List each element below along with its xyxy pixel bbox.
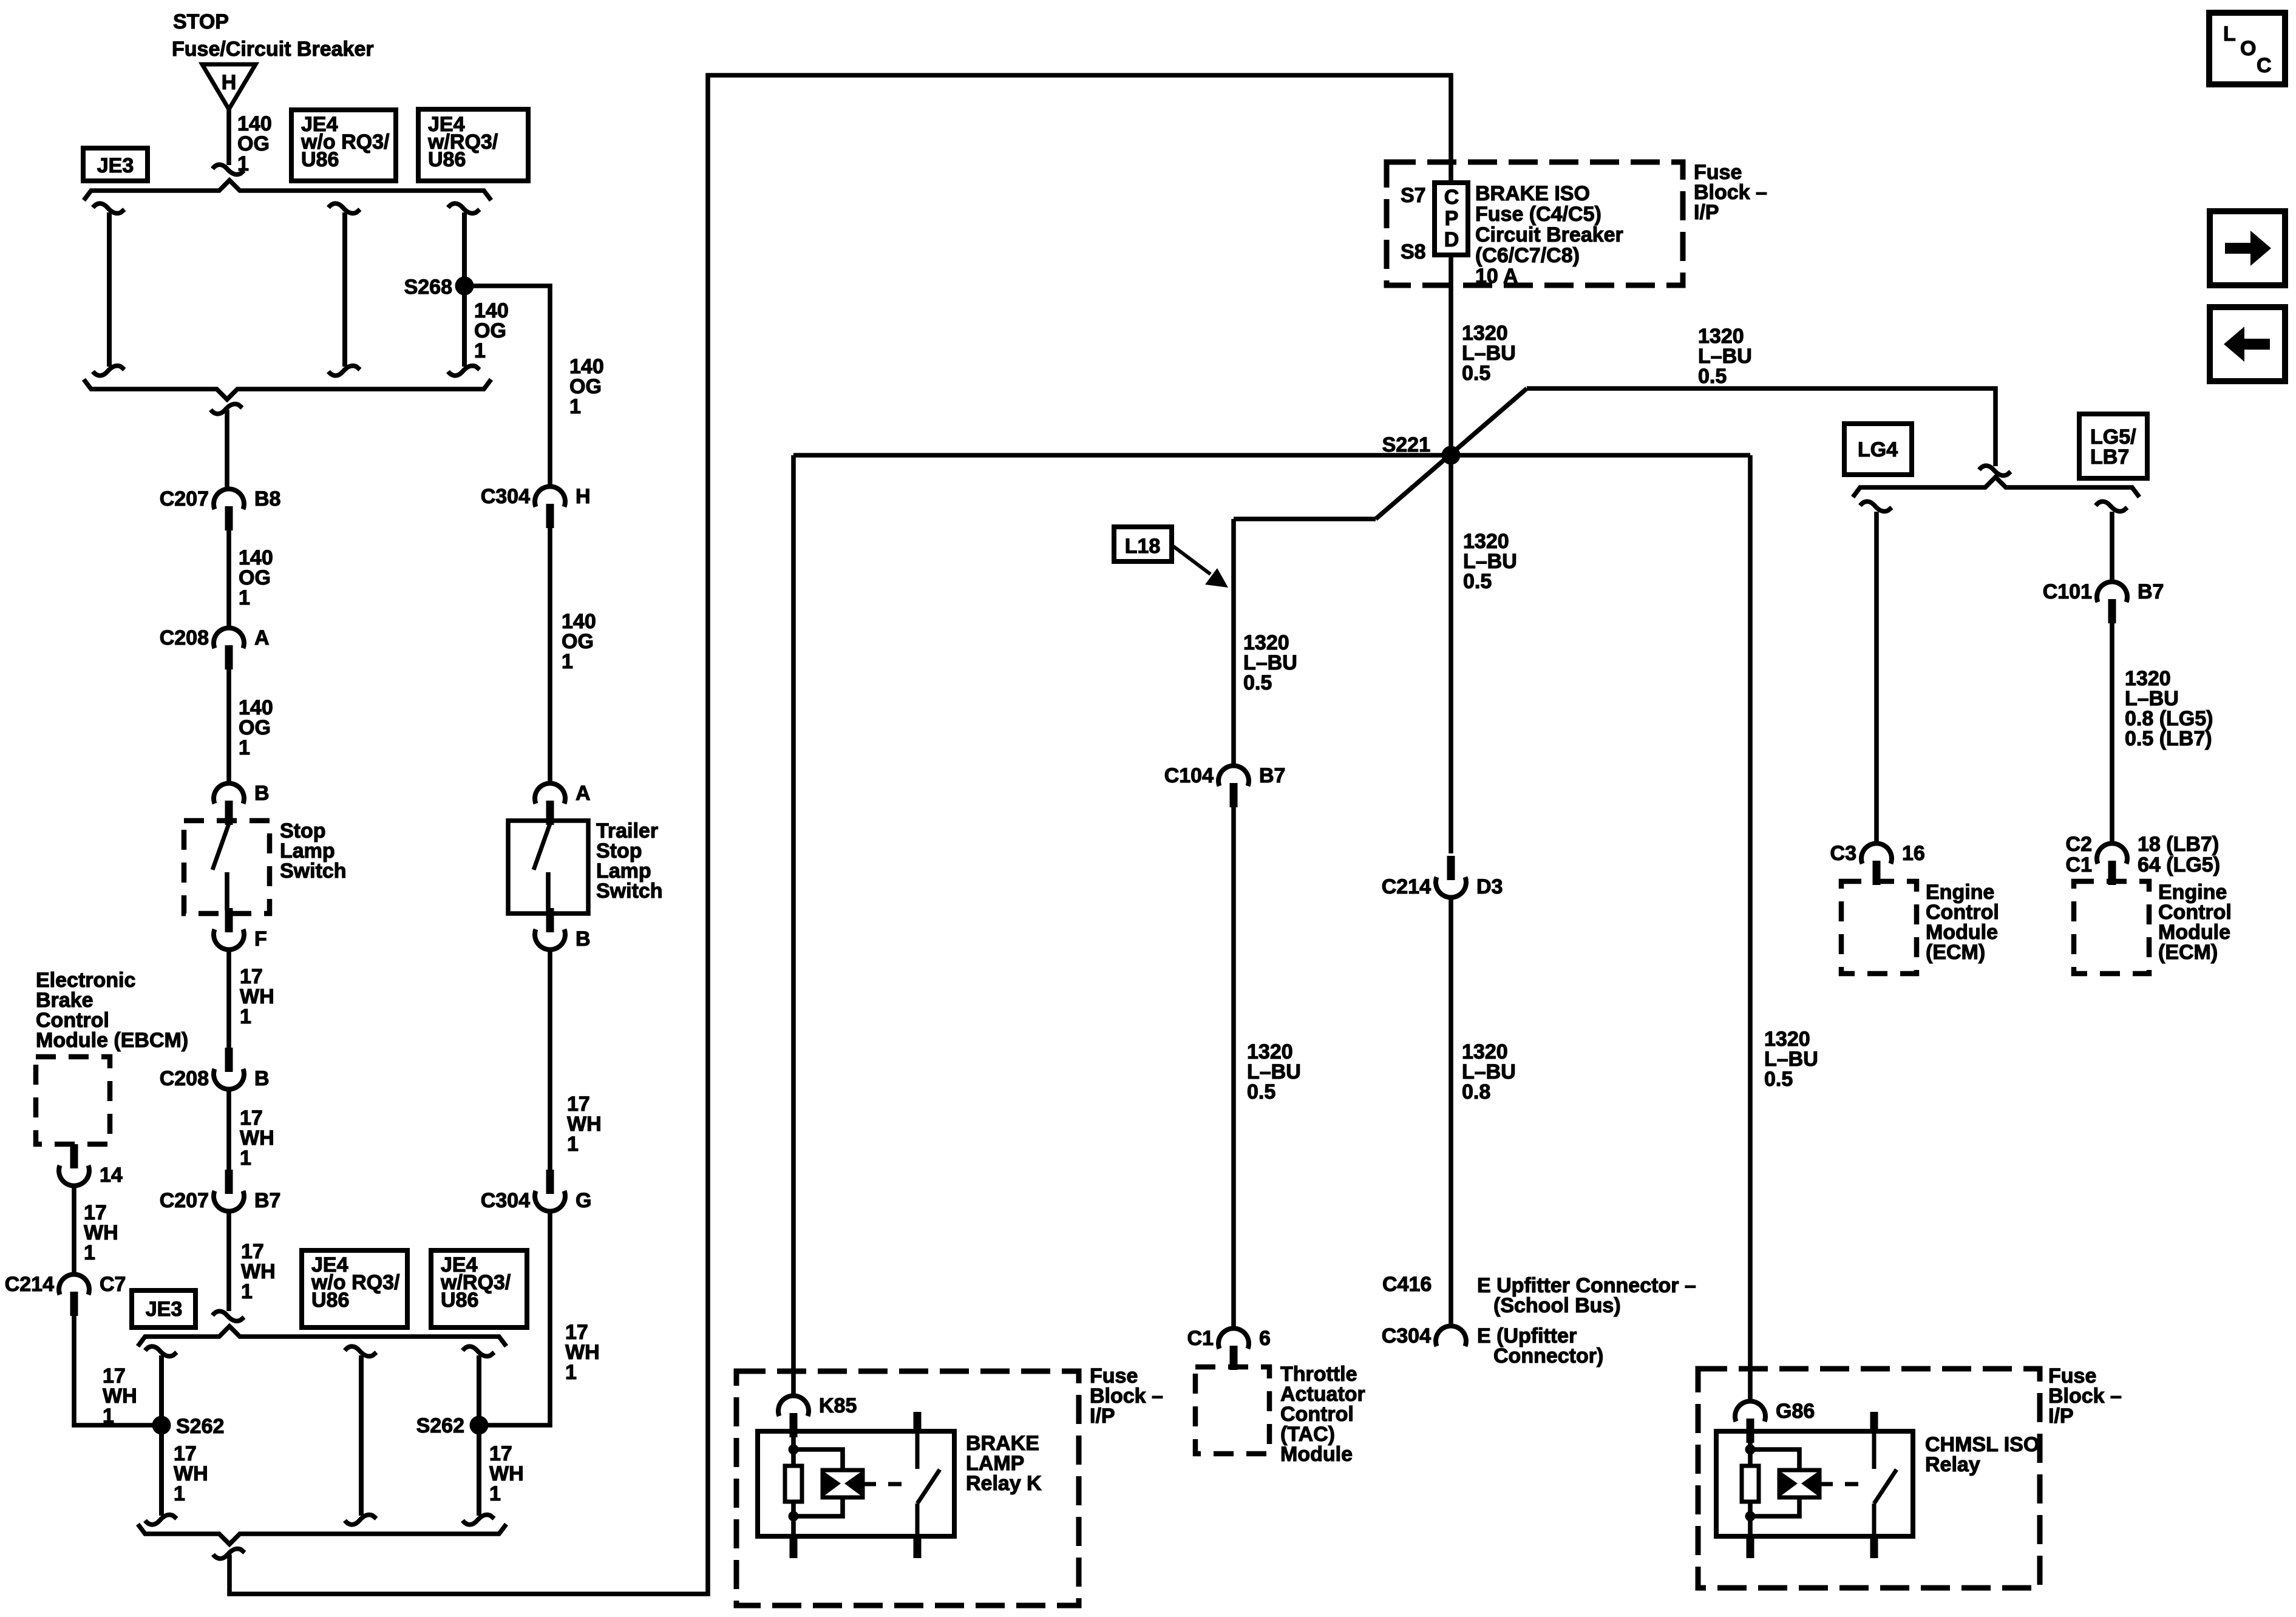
label Trailer Stop Lamp Switch — [596, 819, 663, 903]
wire trailer switch B to C304 G — [548, 949, 552, 1171]
wire switch F to C208 B — [226, 949, 231, 1051]
svg-text:C101: C101 — [2043, 580, 2092, 603]
label 17 WH 1 (C214 to S262) — [103, 1364, 137, 1428]
wire L-BU to engines (top right run) — [1527, 388, 1995, 466]
svg-text:L: L — [2223, 22, 2236, 46]
connector C101 pin B7 — [2043, 580, 2164, 623]
wire LG5/LB7 branch down to C101 — [2110, 512, 2114, 582]
trailer stop lamp switch blade — [534, 824, 550, 870]
label Fuse Block - I/P (brake relay) — [1090, 1364, 1163, 1428]
connector C104 pin B7 — [1164, 764, 1286, 807]
fuse CPD (BRAKE ISO fuse) — [1435, 183, 1468, 255]
svg-text:0.5: 0.5 — [1698, 365, 1727, 388]
label 1320 L-BU 0.5 (CHMSL branch) — [1764, 1028, 1818, 1091]
svg-text:S8: S8 — [1401, 240, 1426, 263]
svg-text:B: B — [254, 1067, 270, 1090]
label S262 (left) — [176, 1415, 224, 1438]
svg-text:18 (LB7): 18 (LB7) — [2138, 833, 2219, 856]
label 17 WH 1 (C208 to C207) — [240, 1107, 274, 1170]
brake lamp relay box — [758, 1431, 954, 1536]
svg-text:A: A — [254, 626, 270, 649]
svg-text:1: 1 — [239, 736, 250, 759]
svg-text:C104: C104 — [1164, 764, 1214, 787]
svg-text:Fuse/Circuit Breaker: Fuse/Circuit Breaker — [172, 38, 374, 61]
svg-text:1: 1 — [239, 586, 250, 609]
svg-text:C207: C207 — [160, 1189, 209, 1212]
label JE4 w/o RQ3/U86 (lower) — [311, 1253, 400, 1312]
svg-text:Module (EBCM): Module (EBCM) — [36, 1029, 188, 1052]
ECM box left (dashed) — [1841, 881, 1917, 974]
svg-text:10 A: 10 A — [1475, 265, 1518, 288]
svg-text:C7: C7 — [100, 1273, 126, 1296]
connector stop lamp switch pin B — [214, 782, 270, 825]
option box JE4 w/o RQ3/U86 (upper) — [291, 110, 396, 181]
wire S221 horizontal (K85 relay to CHMSL relay) — [793, 453, 1750, 458]
svg-text:B7: B7 — [2138, 580, 2164, 603]
label Electronic Brake Control Module (EBCM) — [36, 969, 188, 1052]
label 140 OG 1 (fuse output) — [237, 112, 272, 175]
arrow from L18 to wire — [1172, 545, 1228, 588]
svg-text:A: A — [576, 782, 591, 805]
label E (Upfitter Connector) — [1477, 1324, 1577, 1347]
svg-text:(C6/C7/C8): (C6/C7/C8) — [1475, 244, 1580, 267]
svg-text:1: 1 — [569, 395, 581, 418]
wire C101-B7 to C2/C1 — [2110, 621, 2114, 844]
wire S268 to C304 H — [464, 286, 550, 487]
connector C208 pin A — [160, 626, 270, 670]
svg-text:1: 1 — [567, 1133, 579, 1156]
wire S221 diagonal branch — [1376, 388, 1527, 519]
label 1320 L-BU 0.5 (fuse output) — [1462, 322, 1516, 385]
svg-text:0.8: 0.8 — [1462, 1080, 1490, 1103]
wire C207-B7 to lower brace — [226, 1211, 231, 1311]
svg-text:1: 1 — [240, 1147, 251, 1170]
relay coil branch wires — [793, 1449, 843, 1516]
svg-text:B: B — [254, 782, 270, 805]
svg-text:(School Bus): (School Bus) — [1493, 1294, 1621, 1317]
stop lamp switch housing (dashed) — [184, 821, 270, 914]
relay resistor — [785, 1466, 802, 1502]
trailer stop lamp switch fixed contact — [546, 872, 551, 910]
harness lead squiggle below brace — [211, 404, 242, 414]
wire K85 branch down — [791, 455, 796, 1396]
label Fuse Block - I/P (CHMSL relay) — [2048, 1364, 2122, 1428]
label 1320 L-BU 0.5 (to TAC) — [1247, 1040, 1301, 1103]
svg-text:O: O — [2240, 37, 2256, 60]
relay switch contact — [914, 1412, 940, 1536]
label LG4 — [1858, 438, 1898, 461]
label 17 WH 1 (C207-B7 down) — [241, 1240, 276, 1303]
connector C304 pin G — [481, 1170, 592, 1212]
label S262 (right) — [416, 1414, 464, 1437]
harness lead squiggle above lower brace — [212, 1311, 244, 1321]
wire C304-G to S262 right — [487, 1211, 550, 1425]
label 17 WH 1 (below left S262) — [174, 1442, 208, 1505]
label E Upfitter Connector (School Bus) — [1477, 1274, 1696, 1297]
svg-text:U86: U86 — [441, 1289, 478, 1312]
svg-text:D3: D3 — [1476, 875, 1503, 898]
svg-text:1: 1 — [489, 1482, 501, 1505]
wire C208-A to stop lamp switch B — [226, 667, 231, 784]
label Stop Lamp Switch — [280, 819, 347, 883]
label JE4 w/o RQ3/U86 (upper) — [301, 113, 390, 171]
svg-text:(ECM): (ECM) — [2158, 941, 2218, 964]
label Fuse Block - I/P (top) — [1694, 161, 1767, 224]
connector C3 pin 16 — [1830, 842, 1925, 885]
svg-text:1: 1 — [240, 1005, 251, 1028]
option box JE3 (lower) — [132, 1290, 195, 1327]
svg-text:C304: C304 — [481, 1189, 530, 1212]
wire brace to C207 B8 — [225, 410, 229, 489]
splice S262 (left) — [152, 1416, 171, 1435]
wire C304-H to trailer switch A — [548, 526, 552, 784]
harness option bar 3 lower (JE4 w/RQ3) — [463, 1346, 494, 1525]
harness lead squiggle LG4 branch — [1860, 501, 1892, 511]
svg-text:Fuse (C4/C5): Fuse (C4/C5) — [1475, 203, 1601, 226]
CHMSL relay coil feed wire — [1748, 1431, 1753, 1466]
svg-text:I/P: I/P — [1694, 201, 1719, 224]
CHMSL relay node bottom — [1745, 1511, 1756, 1522]
svg-text:0.5: 0.5 — [1462, 362, 1490, 385]
harness lead squiggle below lower brace — [213, 1549, 245, 1559]
svg-text:B: B — [576, 927, 591, 951]
svg-text:B8: B8 — [254, 487, 280, 510]
label STOP Fuse/Circuit Breaker — [173, 10, 229, 33]
option box LG4 — [1844, 424, 1912, 475]
relay actuation dashed link — [863, 1482, 909, 1486]
label JE3 (lower) — [146, 1298, 183, 1321]
svg-text:S262: S262 — [176, 1415, 224, 1438]
label S268 — [404, 276, 452, 299]
harness brace (bottom of feed split) — [84, 379, 491, 399]
svg-text:0.5: 0.5 — [1764, 1068, 1793, 1091]
fuse symbol H (STOP fuse triangle) — [202, 64, 256, 109]
connector C207 pin B7 — [160, 1170, 281, 1212]
CHMSL relay actuation dashed link — [1819, 1482, 1866, 1486]
splice S268 — [455, 277, 474, 296]
connector relay terminal K85 — [778, 1394, 857, 1437]
label S221 — [1382, 433, 1430, 456]
label 1320 L-BU 0.8/0.5 — [2125, 667, 2213, 750]
label 140 OG 1 (C207 to C208) — [239, 546, 273, 609]
svg-text:1: 1 — [562, 650, 573, 673]
svg-text:S262: S262 — [416, 1414, 464, 1437]
svg-text:Module: Module — [1280, 1443, 1353, 1466]
connector trailer stop lamp switch pin A — [535, 782, 591, 825]
harness brace engines — [1853, 477, 2139, 497]
svg-text:1: 1 — [84, 1241, 95, 1264]
option box JE3 (upper) — [83, 148, 148, 181]
svg-text:B7: B7 — [1259, 764, 1285, 787]
svg-text:C1: C1 — [1187, 1327, 1214, 1350]
relay bottom pins — [790, 1536, 922, 1558]
harness brace lower (top) — [138, 1326, 506, 1346]
label BRAKE LAMP Relay K — [966, 1432, 1042, 1495]
harness lead squiggle above right brace — [1979, 466, 2011, 475]
label 1320 L-BU 0.8 (upfitter) — [1462, 1040, 1516, 1103]
svg-text:C208: C208 — [160, 1067, 209, 1090]
svg-text:P: P — [1445, 207, 1459, 230]
label 1320 L-BU 0.5 (to ECMs) — [1698, 325, 1752, 388]
svg-text:C207: C207 — [160, 487, 209, 510]
label 17 WH 1 (trailer switch down) — [567, 1093, 602, 1156]
relay node bottom — [789, 1511, 799, 1522]
label 140 OG 1 (C208 to switch) — [239, 696, 273, 759]
stop lamp switch blade — [212, 824, 229, 870]
label JE4 w/RQ3/U86 (upper) — [427, 113, 498, 171]
connector TAC C1 pin 6 — [1187, 1327, 1271, 1370]
svg-text:0.5 (LB7): 0.5 (LB7) — [2125, 727, 2212, 750]
wire TAC branch down to C104 — [1231, 519, 1236, 766]
label 1320 L-BU 0.5 (S221 down) — [1463, 530, 1517, 593]
option box JE4 w/o RQ3/U86 (lower) — [302, 1250, 407, 1327]
callout box L18 — [1114, 527, 1172, 561]
svg-text:JE3: JE3 — [146, 1298, 183, 1321]
CHMSL relay switch contact — [1870, 1412, 1897, 1536]
svg-text:C304: C304 — [481, 485, 530, 508]
label 140 OG 1 (right branch) — [569, 355, 604, 418]
label 140 OG 1 (below S268) — [474, 299, 509, 362]
svg-text:BRAKE ISO: BRAKE ISO — [1475, 182, 1590, 205]
harness option bar 3 (JE4 w/RQ3) — [448, 203, 480, 376]
fuse block I/P box (dashed, CPD) — [1387, 162, 1683, 285]
wire C214-C7 to S262 — [74, 1314, 153, 1425]
svg-text:I/P: I/P — [1090, 1405, 1115, 1428]
stop lamp switch fixed contact — [225, 872, 229, 910]
svg-text:L18: L18 — [1125, 535, 1161, 558]
label 17 WH 1 (switch to C208) — [240, 965, 274, 1028]
wire LG4 branch down to C3 — [1874, 512, 1879, 844]
wire C104-B7 to C1-6 — [1231, 805, 1236, 1329]
svg-text:1: 1 — [565, 1361, 577, 1384]
svg-text:B7: B7 — [254, 1189, 280, 1212]
svg-text:LB7: LB7 — [2090, 446, 2129, 469]
svg-text:14: 14 — [100, 1164, 123, 1187]
svg-text:H: H — [576, 485, 591, 508]
label 17 WH 1 (EBCM branch) — [84, 1201, 118, 1264]
wire TAC branch horizontal — [1234, 517, 1376, 521]
svg-text:C: C — [1444, 186, 1459, 209]
wire CPD fuse to S221 — [1449, 255, 1453, 455]
svg-text:0.5: 0.5 — [1463, 570, 1492, 593]
label Engine Control Module (ECM) right — [2158, 881, 2232, 964]
label Engine Control Module (ECM) left — [1926, 881, 1999, 964]
svg-text:(ECM): (ECM) — [1926, 941, 1985, 964]
svg-text:U86: U86 — [301, 148, 339, 171]
svg-text:C3: C3 — [1830, 842, 1856, 865]
svg-text:U86: U86 — [311, 1289, 349, 1312]
svg-text:Relay: Relay — [1925, 1453, 1980, 1476]
label 17 WH 1 (C304-G down) — [565, 1321, 600, 1384]
svg-text:G86: G86 — [1776, 1400, 1815, 1423]
svg-text:G: G — [576, 1189, 591, 1212]
svg-text:I/P: I/P — [2048, 1405, 2074, 1428]
CHMSL relay resistor — [1742, 1466, 1759, 1502]
fuse block I/P box (dashed, CHMSL relay) — [1698, 1369, 2040, 1588]
CHMSL relay node top — [1745, 1445, 1756, 1455]
wire CHMSL branch down — [1748, 455, 1753, 1402]
svg-text:Circuit Breaker: Circuit Breaker — [1475, 223, 1623, 246]
svg-text:S268: S268 — [404, 276, 452, 299]
legend box LOC — [2209, 13, 2285, 84]
svg-text:Connector): Connector) — [1493, 1344, 1603, 1368]
svg-text:16: 16 — [1902, 842, 1925, 865]
svg-text:1: 1 — [103, 1405, 114, 1428]
ECM box right (dashed) — [2074, 881, 2149, 974]
svg-text:64 (LG5): 64 (LG5) — [2138, 853, 2220, 876]
label CHMSL ISO Relay — [1925, 1433, 2039, 1476]
wire fuse H output 140 OG — [226, 109, 231, 165]
label JE3 (upper) — [97, 154, 134, 177]
label 140 OG 1 (C304-H down) — [562, 610, 596, 673]
relay node top — [789, 1445, 799, 1455]
harness option bar 1 (JE3) — [93, 203, 124, 376]
label (School Bus) — [1493, 1294, 1621, 1317]
svg-text:C2: C2 — [2066, 833, 2092, 856]
CHMSL relay resistor lower wire — [1748, 1502, 1753, 1536]
connector stop lamp switch pin F — [214, 908, 267, 951]
svg-text:C304: C304 — [1382, 1324, 1431, 1347]
harness option bar 2 (JE4 w/o RQ3) — [328, 203, 360, 376]
connector C208 pin B — [160, 1048, 270, 1090]
harness brace lower (bottom) — [138, 1524, 506, 1544]
label Throttle Actuator Control (TAC) Module — [1280, 1363, 1365, 1466]
fuse block I/P box (dashed, brake lamp relay) — [736, 1371, 1079, 1605]
svg-text:Switch: Switch — [596, 880, 663, 903]
splice S221 — [1442, 446, 1461, 465]
svg-text:1: 1 — [241, 1280, 253, 1303]
svg-text:C: C — [2257, 54, 2272, 77]
harness option bar 1 lower (JE3) — [145, 1346, 177, 1525]
connector EBCM pin 14 — [59, 1144, 123, 1187]
svg-text:S221: S221 — [1382, 433, 1430, 456]
CHMSL ISO relay box — [1716, 1431, 1913, 1536]
harness option bar 2 lower (JE4 w/o RQ3) — [345, 1346, 376, 1525]
svg-text:D: D — [1444, 228, 1459, 251]
label LG5/LB7 — [2090, 425, 2136, 469]
harness lead squiggle at top brace — [212, 164, 244, 174]
connector C214 pin C7 — [5, 1273, 126, 1316]
harness lead squiggle LG5/LB7 branch — [2096, 501, 2127, 511]
label BRAKE ISO fuse description — [1475, 182, 1623, 288]
svg-text:1: 1 — [474, 339, 486, 362]
splice S262 (right) — [470, 1416, 489, 1435]
CHMSL relay bottom pins — [1747, 1536, 1878, 1558]
svg-text:K85: K85 — [819, 1394, 857, 1417]
svg-text:C208: C208 — [160, 626, 209, 649]
connector C304 pin E (upfitter) — [1382, 1324, 1466, 1347]
label Fuse/Circuit Breaker — [172, 38, 374, 61]
label L18 — [1125, 535, 1161, 558]
relay coil (winding symbol) — [823, 1470, 863, 1497]
svg-text:0.5: 0.5 — [1247, 1080, 1275, 1103]
wire brake feed to fuse block (bottom run) — [229, 75, 1451, 1594]
svg-text:Switch: Switch — [280, 859, 347, 883]
wire S221 down to C214 D3 — [1449, 455, 1453, 853]
svg-text:1: 1 — [174, 1482, 185, 1505]
connector C304 pin H — [481, 485, 591, 528]
connector C214 pin D3 — [1382, 856, 1503, 898]
label fuse terminal S7 — [1401, 184, 1426, 207]
label fuse terminal S8 — [1401, 240, 1426, 263]
svg-text:U86: U86 — [428, 148, 466, 171]
TAC module box (dashed) — [1195, 1367, 1269, 1454]
svg-text:C214: C214 — [1382, 875, 1431, 898]
option box JE4 w/RQ3/U86 (lower) — [431, 1250, 527, 1327]
svg-text:F: F — [254, 927, 267, 951]
label 17 WH 1 (below right S262) — [489, 1442, 524, 1505]
svg-text:Relay K: Relay K — [966, 1472, 1042, 1495]
connector trailer switch pin B — [535, 908, 591, 951]
CHMSL relay coil branch wires — [1750, 1449, 1799, 1516]
label C416 — [1382, 1273, 1432, 1296]
svg-text:JE3: JE3 — [97, 154, 134, 177]
svg-text:C1: C1 — [2066, 853, 2092, 876]
svg-text:S7: S7 — [1401, 184, 1426, 207]
connector relay terminal G86 — [1735, 1400, 1815, 1443]
wire C214-D3 to C304-E — [1449, 897, 1453, 1326]
option box LG5/LB7 — [2079, 414, 2147, 478]
wire EBCM 14 to C214 C7 — [72, 1185, 76, 1275]
wire C208-B to C207-B7 — [226, 1089, 231, 1171]
relay coil feed wire — [791, 1431, 796, 1466]
relay resistor lower wire — [791, 1502, 796, 1536]
svg-text:H: H — [222, 71, 237, 94]
wire C207-B8 to C208-A — [226, 528, 231, 628]
svg-text:LG4: LG4 — [1858, 438, 1898, 461]
label Connector) line2 — [1493, 1344, 1603, 1368]
svg-text:6: 6 — [1259, 1327, 1271, 1350]
label JE4 w/RQ3/U86 (lower) — [440, 1253, 511, 1312]
svg-text:0.5: 0.5 — [1243, 671, 1272, 694]
svg-text:STOP: STOP — [173, 10, 229, 33]
svg-text:C214: C214 — [5, 1273, 54, 1296]
EBCM module box (dashed) — [36, 1057, 110, 1144]
option box JE4 w/RQ3/U86 (upper) — [418, 109, 528, 181]
svg-text:C416: C416 — [1382, 1273, 1432, 1296]
label 1320 L-BU 0.5 (TAC branch) — [1243, 631, 1297, 694]
legend box arrow left — [2210, 307, 2285, 381]
CHMSL relay coil (winding symbol) — [1779, 1470, 1819, 1497]
legend box arrow right — [2210, 211, 2285, 285]
trailer stop lamp switch housing — [508, 821, 588, 914]
connector C2/C1 ECM pins — [2066, 833, 2221, 885]
connector C207 pin B8 — [160, 487, 281, 531]
harness brace top (feed split) — [84, 180, 491, 200]
